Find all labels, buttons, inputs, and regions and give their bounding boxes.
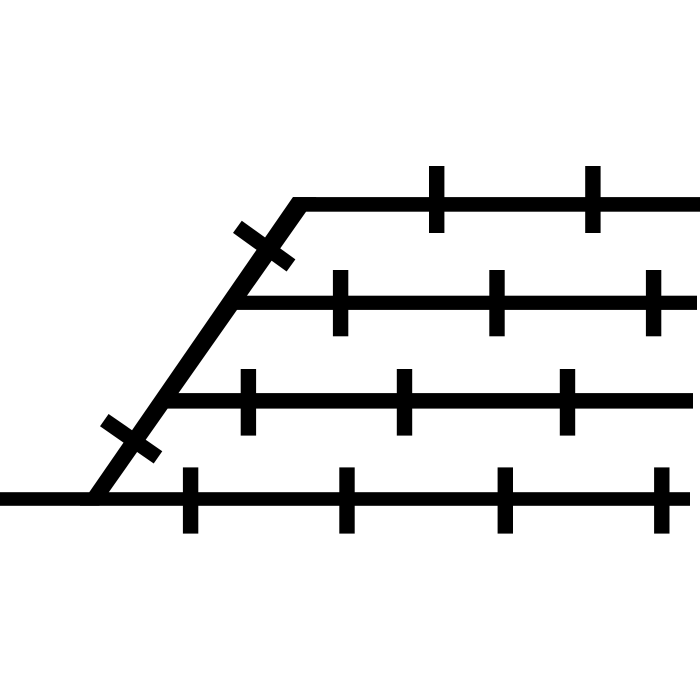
cross tick X2 on diagonal (lower) [104, 420, 158, 457]
tick T3a on track 3 [241, 369, 256, 436]
tick T4a on track 4 [183, 467, 198, 533]
cross tick X1 on diagonal (upper) [237, 227, 291, 266]
wire: bottom horizontal line (track 4 / main line) [0, 492, 690, 506]
tick T2b on track 2 [489, 270, 504, 336]
wire: top horizontal line (track 1) [293, 197, 700, 212]
tick T2c on track 2 [646, 270, 661, 336]
tick T1b on track 1 [585, 166, 600, 233]
tick T2a on track 2 [333, 270, 348, 336]
wire: second horizontal line (track 2) [228, 296, 697, 310]
tick T3c on track 3 [560, 369, 575, 436]
wire: third horizontal line (track 3) [160, 393, 693, 409]
tick T3b on track 3 [397, 369, 412, 436]
tick T4c on track 4 [498, 467, 513, 533]
tick T4b on track 4 [339, 467, 354, 533]
wire: diagonal ladder line joining all tracks [80, 197, 316, 506]
tick T1a on track 1 [429, 166, 444, 233]
tick T4d on track 4 [654, 467, 669, 533]
